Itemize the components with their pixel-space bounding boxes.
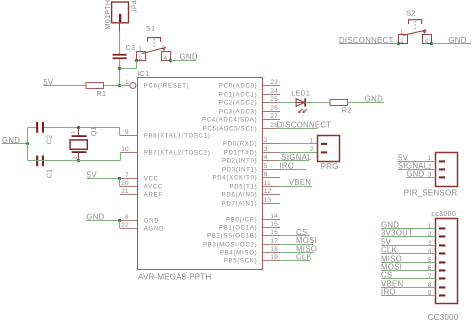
wire DISCONNECT to S2	[339, 43, 399, 45]
CC3000 pin 5 MISO	[381, 255, 445, 264]
svg-text:VCC: VCC	[144, 177, 159, 183]
CC3000 pin 4 CLK	[381, 246, 445, 255]
svg-text:R1: R1	[97, 89, 107, 98]
IC1 pin 15 PB1(OC1A)	[219, 221, 280, 232]
svg-text:PD5(T1): PD5(T1)	[229, 185, 257, 191]
wire S1 pin4 to GND label	[171, 60, 197, 62]
svg-text:6: 6	[264, 171, 268, 178]
connector JP4 (M01PTH)	[103, 0, 138, 30]
IC1 pin 24 PC1(ADC1)	[219, 88, 280, 99]
wire S1 branch to reset vertical	[120, 68, 137, 70]
IC1 pin 14 PB0(ICP)	[226, 213, 280, 224]
wire GND to pin8	[86, 220, 120, 222]
IC1 pin 19 PB5(SCK)	[224, 254, 280, 265]
IC1 pin 27 PC4(ADC4/SDA)	[202, 113, 280, 124]
svg-text:12: 12	[264, 188, 272, 195]
junction GND crystal	[26, 142, 29, 145]
svg-text:15: 15	[270, 221, 278, 228]
junction VCC	[118, 177, 121, 180]
svg-text:24: 24	[270, 88, 278, 95]
IC1 pin 8 GND	[120, 214, 159, 225]
svg-text:7: 7	[125, 172, 129, 179]
wire pin2 to PRG pin1	[280, 143, 318, 145]
junction crystal top	[77, 126, 80, 129]
CC3000 pin 7 CS	[381, 271, 445, 280]
wire JP4 to C3	[119, 32, 121, 55]
svg-text:17: 17	[270, 238, 278, 245]
junction at C3/S1 branch	[118, 67, 121, 70]
svg-text:2: 2	[264, 137, 268, 144]
svg-text:PD7(AIN1): PD7(AIN1)	[222, 202, 258, 208]
svg-text:2: 2	[72, 157, 78, 160]
svg-text:GND: GND	[406, 169, 424, 178]
svg-text:CC3000: CC3000	[428, 313, 459, 322]
junction S2 pin2	[397, 42, 400, 45]
svg-text:19: 19	[270, 254, 278, 261]
wire GND label to crystal net	[2, 143, 28, 145]
wire SIGNAL net	[280, 160, 309, 162]
IC1 pin 26 PC3(ADC3)	[219, 105, 280, 116]
svg-text:8: 8	[125, 214, 129, 221]
wire crystal left vertical	[27, 128, 29, 161]
connector CC3000	[428, 209, 459, 322]
capacitor C3	[113, 43, 136, 59]
svg-text:PB0(ICP): PB0(ICP)	[226, 218, 257, 224]
svg-text:PC1(ADC1): PC1(ADC1)	[219, 93, 257, 99]
CC3000 pin 9 IRQ	[381, 288, 445, 297]
connector PIR_SENSOR	[404, 153, 458, 198]
wire pin3 to PRG pin2	[280, 152, 318, 154]
junction crystal bottom	[77, 159, 80, 162]
wire pin25 to LED	[280, 102, 296, 104]
IC1 pin 28 PC5(ADC5/SCL)	[203, 122, 280, 133]
wire R1 to reset pin	[104, 85, 130, 87]
svg-text:13: 13	[264, 197, 272, 204]
switch S1	[137, 24, 171, 62]
IC1 pin 10 PB7(XTAL2/TOSC2)	[120, 146, 211, 157]
wire down to pin 9	[119, 128, 121, 136]
svg-text:GND: GND	[180, 53, 198, 62]
svg-text:1: 1	[125, 79, 129, 86]
svg-text:C2: C2	[45, 135, 54, 145]
svg-text:PC6(/RESET): PC6(/RESET)	[144, 84, 190, 90]
svg-text:3: 3	[264, 146, 268, 153]
CC3000 pin 8 VBEN	[381, 280, 445, 289]
IC1 pin 17 PB3(MOSI/OC2)	[203, 238, 280, 249]
svg-text:PB5(SCK): PB5(SCK)	[224, 259, 258, 265]
svg-text:26: 26	[270, 105, 278, 112]
svg-text:S1: S1	[146, 24, 155, 33]
wire 5V to PIR pin1	[398, 161, 436, 163]
svg-text:18: 18	[270, 246, 278, 253]
IC1 pin 22 AGND	[120, 222, 164, 233]
svg-text:2: 2	[400, 39, 404, 45]
IC1 pin 3 PD1(TXD)	[224, 146, 280, 157]
svg-text:VBEN: VBEN	[289, 178, 311, 187]
svg-text:AGND: AGND	[144, 227, 164, 233]
svg-text:AVCC: AVCC	[144, 185, 163, 191]
svg-text:C1: C1	[45, 169, 54, 179]
wire C2 to XTAL1 net	[44, 127, 120, 129]
svg-text:R2: R2	[342, 106, 352, 115]
wire VCC to AVCC	[119, 179, 121, 187]
svg-text:LED1: LED1	[291, 89, 310, 98]
wire CLK net	[280, 260, 310, 262]
wire S1 pin2 down	[136, 61, 138, 69]
svg-text:S2: S2	[406, 9, 415, 18]
IC1 pin 16 PB2(SS/OC1B)	[207, 229, 280, 240]
svg-text:GND: GND	[448, 36, 466, 45]
svg-text:PC4(ADC4/SDA): PC4(ADC4/SDA)	[202, 118, 257, 124]
svg-text:PB3(MOSI/OC2): PB3(MOSI/OC2)	[203, 243, 257, 249]
CC3000 pin 2 3V3OUT	[381, 229, 445, 238]
IC U1 AVR-MEGA8 body	[138, 78, 263, 270]
IC1 pin 23 PC0(ADC0)	[219, 79, 280, 90]
IC1 pin 21 AREF	[120, 188, 163, 199]
svg-text:DISCONNECT: DISCONNECT	[339, 36, 394, 45]
svg-text:AREF: AREF	[144, 193, 163, 199]
svg-text:16: 16	[270, 229, 278, 236]
svg-text:IRQ: IRQ	[279, 161, 294, 170]
wire up to pin 10	[120, 153, 122, 161]
IC1 pin 6 PD4(XCK/T0)	[212, 171, 280, 182]
IC1 pin 4 PD2(INT0)	[222, 154, 280, 165]
IC1 pin 5 PD3(INT1)	[222, 163, 280, 174]
svg-text:PRG: PRG	[321, 162, 339, 171]
svg-text:10: 10	[121, 146, 129, 153]
IC1 pin 2 PD0(RXD)	[223, 137, 280, 148]
wire top branch to C2	[28, 127, 37, 129]
wire IRQ net	[280, 169, 306, 171]
svg-text:PC0(ADC0): PC0(ADC0)	[219, 84, 257, 90]
wire MOSI net	[280, 244, 314, 246]
wire GND to PIR pin3	[406, 177, 436, 179]
svg-text:PD6(AIN0): PD6(AIN0)	[222, 193, 258, 199]
resistor R2	[330, 100, 352, 115]
svg-text:PB4(MISO): PB4(MISO)	[220, 251, 257, 257]
crystal Q1	[70, 126, 98, 160]
IC1 pin 25 PC2(ADC2)	[219, 96, 280, 107]
svg-text:PB6(XTAL1/TOSC1): PB6(XTAL1/TOSC1)	[144, 134, 211, 140]
svg-text:14: 14	[270, 213, 278, 220]
svg-text:PD4(XCK/T0): PD4(XCK/T0)	[212, 176, 257, 182]
IC1 pin 18 PB4(MISO)	[220, 246, 280, 257]
svg-text:M01PTH: M01PTH	[103, 0, 112, 30]
wire SIGNAL to PIR pin2	[398, 169, 436, 171]
svg-text:20: 20	[121, 180, 129, 187]
svg-text:PB1(OC1A): PB1(OC1A)	[219, 226, 257, 232]
resistor R1	[86, 83, 106, 99]
svg-text:11: 11	[264, 180, 271, 187]
wire 5V to VCC pin7	[87, 178, 120, 180]
svg-text:AVR-MEGA8-PPTH: AVR-MEGA8-PPTH	[138, 273, 211, 282]
svg-text:Q1: Q1	[89, 126, 98, 136]
pin of JP4 to wire	[119, 23, 121, 32]
svg-text:1: 1	[71, 131, 77, 134]
switch S2	[399, 9, 432, 46]
IC1 pin 12 PD6(AIN0)	[222, 188, 280, 199]
svg-text:PD2(INT0): PD2(INT0)	[222, 159, 257, 165]
junction S2 pin4	[430, 42, 433, 45]
svg-text:21: 21	[121, 188, 129, 195]
wire CS net	[280, 235, 310, 237]
svg-text:IC1: IC1	[137, 69, 149, 78]
svg-text:PD1(TXD): PD1(TXD)	[224, 151, 258, 157]
svg-text:25: 25	[270, 96, 278, 103]
LED lead line	[296, 102, 305, 104]
capacitor C2	[36, 122, 54, 144]
wire S2 pin4 to GND	[432, 43, 472, 45]
svg-text:CS: CS	[381, 271, 392, 280]
svg-text:5: 5	[264, 163, 268, 170]
junction GND pin8	[118, 219, 121, 222]
IC1 pin 11 PD5(T1)	[229, 180, 280, 191]
CC3000 pin 3 5V	[381, 238, 445, 247]
IC1 pin 20 AVCC	[120, 180, 163, 191]
IC1 pin 1 PC6(/RESET)	[125, 79, 189, 90]
pin 1 inversion circle	[130, 83, 136, 89]
svg-text:IRQ: IRQ	[381, 288, 396, 297]
wire LED to R2	[305, 102, 330, 104]
CC3000 pin 6 MOSI	[381, 263, 445, 272]
svg-text:PB7(XTAL2/TOSC2): PB7(XTAL2/TOSC2)	[144, 151, 211, 157]
svg-text:PB2(SS/OC1B): PB2(SS/OC1B)	[207, 234, 257, 240]
IC1 pin 9 PB6(XTAL1/TOSC1)	[120, 129, 211, 140]
LED LED1	[291, 89, 310, 114]
svg-text:PC2(ADC2): PC2(ADC2)	[219, 101, 257, 107]
wire VBEN net	[280, 186, 312, 188]
svg-text:PC5(ADC5/SCL): PC5(ADC5/SCL)	[203, 127, 258, 133]
svg-text:PC3(ADC3): PC3(ADC3)	[219, 110, 257, 116]
wire C3 down to reset net	[119, 59, 121, 85]
svg-text:27: 27	[270, 113, 278, 120]
svg-text:cc3000: cc3000	[431, 209, 456, 218]
svg-text:9: 9	[125, 129, 129, 136]
wire bottom branch C1 to XTAL2	[28, 160, 121, 162]
svg-text:GND: GND	[144, 219, 160, 225]
svg-text:PIR_SENSOR: PIR_SENSOR	[404, 188, 458, 197]
svg-text:C3: C3	[126, 43, 136, 52]
capacitor C1	[36, 156, 54, 179]
wire MISO net	[280, 252, 314, 254]
wire DISCONNECT net	[277, 128, 318, 130]
connector PRG	[310, 136, 340, 172]
junction at reset wire	[118, 84, 121, 87]
junction S1 pin2	[135, 59, 138, 62]
svg-text:CLK: CLK	[296, 253, 313, 262]
svg-text:3V3OUT: 3V3OUT	[381, 229, 413, 238]
svg-text:DISCONNECT: DISCONNECT	[277, 121, 332, 130]
svg-text:PD3(INT1): PD3(INT1)	[222, 168, 257, 174]
wire 5V to R1	[43, 85, 86, 87]
svg-text:GND: GND	[365, 95, 383, 104]
wire GND to AGND	[119, 221, 121, 229]
svg-text:PD0(RXD): PD0(RXD)	[223, 142, 257, 148]
svg-text:23: 23	[270, 79, 278, 86]
CC3000 pin 1 GND	[381, 221, 445, 230]
svg-text:JP4: JP4	[130, 0, 139, 13]
svg-text:22: 22	[121, 222, 129, 229]
IC1 pin 13 PD7(AIN1)	[222, 197, 280, 208]
wire R2 to GND label	[348, 102, 385, 104]
svg-text:4: 4	[425, 39, 429, 45]
svg-text:4: 4	[264, 154, 268, 161]
svg-text:CLK: CLK	[381, 246, 398, 255]
svg-text:2: 2	[310, 147, 314, 153]
IC1 pin 7 VCC	[120, 172, 159, 183]
junction S1 pin4	[169, 59, 172, 62]
